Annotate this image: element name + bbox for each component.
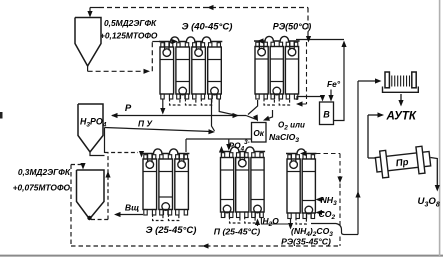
svg-text:+0,125МТОФО: +0,125МТОФО <box>100 31 158 41</box>
svg-text:РЭ(35-45°С): РЭ(35-45°С) <box>281 237 331 247</box>
svg-text:+0,075МТОФО: +0,075МТОФО <box>13 183 71 193</box>
svg-text:Ок: Ок <box>253 129 264 138</box>
svg-text:РЭ(50°С): РЭ(50°С) <box>273 22 312 32</box>
svg-text:0,5МД2ЭГФК: 0,5МД2ЭГФК <box>104 18 157 28</box>
svg-text:Э (40-45°С): Э (40-45°С) <box>182 22 233 33</box>
svg-text:П У: П У <box>138 119 153 129</box>
svg-text:Э (25-45°С): Э (25-45°С) <box>146 225 197 236</box>
svg-text:Р: Р <box>125 103 132 114</box>
svg-text:Пр: Пр <box>395 157 409 169</box>
svg-text:В: В <box>323 110 330 120</box>
svg-text:Fe°: Fe° <box>327 79 341 89</box>
svg-text:0,3МД2ЭГФК: 0,3МД2ЭГФК <box>18 167 71 177</box>
svg-text:Вщ: Вщ <box>125 203 139 213</box>
svg-text:АУТК: АУТК <box>386 111 417 123</box>
svg-text:П (25-45°С): П (25-45°С) <box>214 227 261 237</box>
